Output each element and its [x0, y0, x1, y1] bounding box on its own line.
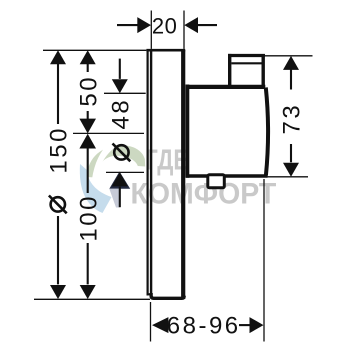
svg-text:100: 100 — [76, 194, 103, 242]
svg-text:КОМФОРТ: КОМФОРТ — [131, 178, 277, 211]
svg-text:20: 20 — [152, 14, 177, 39]
svg-text:68-96: 68-96 — [167, 312, 241, 339]
svg-text:48: 48 — [107, 98, 134, 130]
svg-text:50: 50 — [76, 75, 103, 107]
svg-text:73: 73 — [279, 103, 306, 135]
svg-text:150: 150 — [46, 126, 73, 174]
